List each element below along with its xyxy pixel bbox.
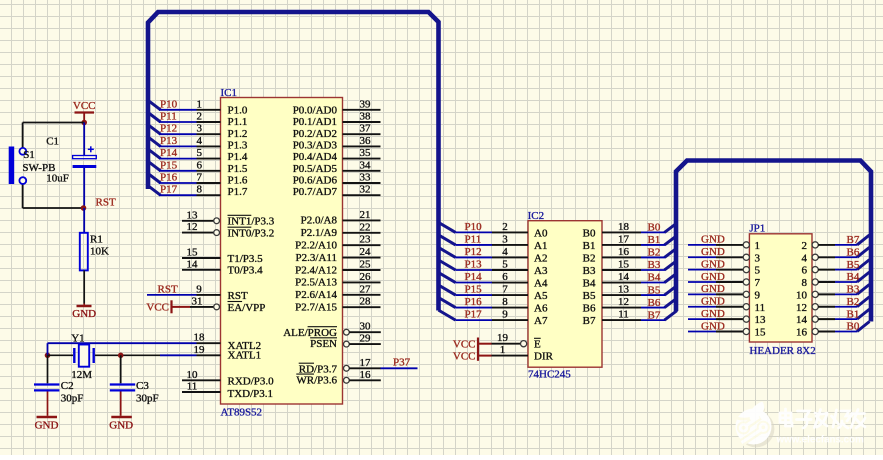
svg-text:VCC: VCC: [453, 339, 476, 351]
svg-text:P14: P14: [465, 271, 483, 283]
svg-text:B5: B5: [648, 284, 661, 296]
svg-text:B3: B3: [583, 265, 596, 277]
svg-text:24: 24: [360, 246, 372, 258]
svg-text:P0.1/AD1: P0.1/AD1: [293, 116, 337, 128]
svg-text:P17: P17: [465, 309, 483, 321]
svg-text:JP1: JP1: [749, 223, 765, 235]
svg-text:RST: RST: [228, 290, 248, 302]
svg-text:9: 9: [755, 289, 761, 301]
svg-text:P17: P17: [160, 184, 178, 196]
svg-text:25: 25: [360, 259, 372, 271]
svg-text:P37: P37: [393, 357, 411, 369]
svg-text:12: 12: [187, 221, 198, 233]
svg-text:P0.2/AD2: P0.2/AD2: [293, 128, 337, 140]
svg-text:A3: A3: [534, 265, 548, 277]
svg-text:A5: A5: [534, 290, 548, 302]
svg-text:GND: GND: [701, 258, 725, 270]
svg-text:12: 12: [796, 302, 807, 314]
svg-text:8: 8: [197, 184, 203, 196]
svg-text:6: 6: [802, 265, 808, 277]
svg-text:B5: B5: [847, 259, 860, 271]
svg-text:19: 19: [497, 332, 509, 344]
svg-text:2: 2: [802, 240, 808, 252]
svg-text:16: 16: [796, 326, 808, 338]
svg-text:P2.0/A8: P2.0/A8: [301, 215, 338, 227]
svg-text:DIR: DIR: [534, 351, 554, 363]
svg-text:P2.4/A12: P2.4/A12: [295, 264, 337, 276]
svg-text:16: 16: [618, 246, 630, 258]
svg-text:GND: GND: [701, 246, 725, 258]
svg-text:P12: P12: [465, 246, 482, 258]
svg-text:37: 37: [360, 123, 372, 135]
svg-text:P11: P11: [465, 233, 482, 245]
svg-text:3: 3: [502, 233, 508, 245]
svg-text:B7: B7: [648, 309, 661, 321]
svg-text:P2.7/A15: P2.7/A15: [295, 302, 337, 314]
svg-text:30pF: 30pF: [61, 393, 84, 405]
svg-text:HEADER 8X2: HEADER 8X2: [749, 345, 815, 357]
svg-text:4: 4: [197, 135, 203, 147]
svg-text:23: 23: [360, 234, 372, 246]
svg-text:RST: RST: [158, 283, 178, 295]
svg-text:WR/P3.6: WR/P3.6: [296, 374, 337, 386]
svg-text:C3: C3: [136, 380, 149, 392]
svg-text:A1: A1: [534, 240, 547, 252]
svg-text:GND: GND: [701, 234, 725, 246]
svg-text:B2: B2: [583, 252, 596, 264]
svg-text:7: 7: [755, 277, 761, 289]
svg-text:35: 35: [360, 147, 372, 159]
svg-text:Y1: Y1: [71, 333, 84, 345]
svg-text:GND: GND: [35, 419, 59, 431]
svg-text:B2: B2: [648, 247, 661, 259]
svg-text:P0.0/AD0: P0.0/AD0: [293, 104, 338, 116]
svg-text:P2.3/A11: P2.3/A11: [296, 252, 337, 264]
svg-text:IC2: IC2: [528, 210, 545, 222]
svg-text:P10: P10: [465, 221, 483, 233]
svg-text:12M: 12M: [71, 369, 92, 381]
svg-text:XATL1: XATL1: [228, 350, 262, 362]
svg-text:P10: P10: [160, 98, 178, 110]
svg-text:P1.1: P1.1: [228, 116, 248, 128]
svg-text:17: 17: [618, 233, 630, 245]
svg-text:39: 39: [360, 98, 372, 110]
svg-text:B1: B1: [847, 308, 860, 320]
svg-text:B7: B7: [847, 234, 860, 246]
svg-text:A6: A6: [534, 303, 548, 315]
svg-text:P0.7/AD7: P0.7/AD7: [293, 186, 338, 198]
svg-text:A4: A4: [534, 278, 548, 290]
svg-text:16: 16: [360, 369, 372, 381]
svg-text:7: 7: [197, 172, 203, 184]
svg-text:36: 36: [360, 135, 372, 147]
svg-text:74HC245: 74HC245: [528, 368, 571, 380]
svg-text:B0: B0: [847, 321, 860, 333]
svg-text:13: 13: [755, 314, 767, 326]
svg-text:C2: C2: [61, 380, 74, 392]
svg-text:P0.5/AD5: P0.5/AD5: [293, 163, 338, 175]
svg-text:11: 11: [187, 381, 198, 393]
svg-text:29: 29: [360, 333, 372, 345]
svg-text:6: 6: [197, 159, 203, 171]
svg-text:VCC: VCC: [453, 351, 476, 363]
svg-text:14: 14: [187, 258, 199, 270]
svg-text:GND: GND: [701, 296, 725, 308]
svg-text:34: 34: [360, 159, 372, 171]
svg-text:INT1/P3.3: INT1/P3.3: [228, 216, 275, 228]
svg-text:3: 3: [197, 123, 203, 135]
svg-text:B3: B3: [847, 284, 860, 296]
svg-text:B6: B6: [847, 246, 860, 258]
svg-text:GND: GND: [701, 283, 725, 295]
svg-text:1: 1: [500, 344, 506, 356]
svg-text:17: 17: [360, 357, 372, 369]
svg-text:GND: GND: [701, 320, 725, 332]
svg-text:GND: GND: [72, 308, 96, 320]
svg-text:27: 27: [360, 283, 372, 295]
svg-text:A7: A7: [534, 315, 548, 327]
svg-text:B3: B3: [648, 259, 661, 271]
svg-text:P0.6/AD6: P0.6/AD6: [293, 174, 338, 186]
svg-text:B0: B0: [583, 227, 596, 239]
svg-text:1: 1: [755, 240, 761, 252]
svg-text:P0.3/AD3: P0.3/AD3: [293, 139, 338, 151]
svg-text:AT89S52: AT89S52: [221, 407, 263, 419]
svg-text:15: 15: [755, 326, 767, 338]
svg-text:32: 32: [360, 184, 371, 196]
svg-text:P1.6: P1.6: [228, 174, 248, 186]
svg-text:VCC: VCC: [146, 302, 169, 314]
svg-text:13: 13: [618, 284, 630, 296]
svg-text:B5: B5: [583, 290, 596, 302]
svg-text:8: 8: [802, 277, 808, 289]
svg-text:P1.3: P1.3: [228, 139, 248, 151]
svg-text:B7: B7: [583, 315, 596, 327]
svg-text:INT0/P3.2: INT0/P3.2: [228, 228, 275, 240]
svg-text:30: 30: [360, 321, 372, 333]
svg-text:26: 26: [360, 271, 372, 283]
svg-text:11: 11: [755, 302, 766, 314]
svg-text:T1/P3.5: T1/P3.5: [228, 253, 264, 265]
svg-text:10K: 10K: [90, 246, 109, 258]
svg-text:33: 33: [360, 172, 372, 184]
svg-text:P15: P15: [465, 284, 483, 296]
svg-text:C1: C1: [46, 135, 59, 147]
svg-text:R1: R1: [90, 233, 103, 245]
svg-text:B6: B6: [648, 297, 661, 309]
svg-text:21: 21: [360, 209, 371, 221]
svg-text:11: 11: [618, 309, 629, 321]
svg-text:P15: P15: [160, 159, 178, 171]
svg-text:18: 18: [618, 221, 630, 233]
svg-text:P2.6/A14: P2.6/A14: [295, 289, 337, 301]
svg-text:P1.0: P1.0: [228, 104, 248, 116]
svg-text:12: 12: [618, 296, 629, 308]
svg-text:P2.1/A9: P2.1/A9: [301, 227, 338, 239]
svg-text:5: 5: [502, 258, 508, 270]
svg-text:22: 22: [360, 221, 371, 233]
svg-text:31: 31: [192, 295, 203, 307]
svg-text:18: 18: [194, 332, 206, 344]
svg-text:P12: P12: [160, 123, 177, 135]
svg-text:6: 6: [502, 271, 508, 283]
svg-text:30pF: 30pF: [136, 393, 159, 405]
svg-text:P16: P16: [160, 172, 178, 184]
svg-text:15: 15: [618, 258, 630, 270]
svg-text:P1.4: P1.4: [228, 151, 248, 163]
svg-text:13: 13: [187, 209, 199, 221]
svg-text:8: 8: [502, 296, 508, 308]
svg-text:P13: P13: [465, 258, 483, 270]
svg-text:10uF: 10uF: [46, 172, 69, 184]
svg-text:P1.7: P1.7: [228, 186, 248, 198]
svg-text:A0: A0: [534, 227, 548, 239]
svg-text:9: 9: [502, 309, 508, 321]
svg-text:3: 3: [755, 252, 761, 264]
svg-text:4: 4: [802, 252, 808, 264]
svg-text:EA/VPP: EA/VPP: [228, 302, 266, 314]
svg-text:P0.4/AD4: P0.4/AD4: [293, 151, 338, 163]
svg-text:GND: GND: [701, 271, 725, 283]
svg-text:B4: B4: [583, 278, 596, 290]
svg-text:7: 7: [502, 284, 508, 296]
svg-text:38: 38: [360, 111, 372, 123]
svg-text:P16: P16: [465, 296, 483, 308]
svg-text:A2: A2: [534, 252, 547, 264]
svg-text:B6: B6: [583, 303, 596, 315]
svg-text:15: 15: [187, 247, 199, 259]
svg-text:TXD/P3.1: TXD/P3.1: [228, 388, 274, 400]
svg-text:B1: B1: [583, 240, 596, 252]
svg-text:5: 5: [755, 265, 761, 277]
svg-text:P1.2: P1.2: [228, 128, 248, 140]
svg-text:GND: GND: [109, 419, 133, 431]
svg-text:GND: GND: [701, 308, 725, 320]
svg-text:P13: P13: [160, 135, 178, 147]
svg-text:9: 9: [196, 283, 202, 295]
svg-text:S1: S1: [23, 149, 35, 161]
svg-text:2: 2: [502, 221, 508, 233]
svg-text:10: 10: [796, 289, 808, 301]
svg-text:RST: RST: [96, 196, 116, 208]
svg-text:P2.2/A10: P2.2/A10: [295, 240, 337, 252]
svg-text:PSEN: PSEN: [310, 338, 337, 350]
svg-text:RXD/P3.0: RXD/P3.0: [228, 376, 275, 388]
svg-text:www.elecfans.com: www.elecfans.com: [776, 434, 865, 445]
svg-text:4: 4: [502, 246, 508, 258]
svg-text:19: 19: [194, 344, 206, 356]
svg-text:T0/P3.4: T0/P3.4: [228, 265, 264, 277]
svg-text:B2: B2: [847, 296, 860, 308]
svg-text:B1: B1: [648, 234, 661, 246]
svg-text:P14: P14: [160, 147, 178, 159]
svg-text:2: 2: [197, 111, 203, 123]
svg-text:1: 1: [197, 98, 203, 110]
svg-text:5: 5: [197, 147, 203, 159]
svg-text:P1.5: P1.5: [228, 163, 248, 175]
svg-text:14: 14: [796, 314, 808, 326]
svg-text:IC1: IC1: [221, 87, 238, 99]
svg-text:P2.5/A13: P2.5/A13: [295, 277, 337, 289]
svg-text:B0: B0: [648, 222, 661, 234]
svg-text:E: E: [534, 339, 541, 351]
svg-text:10: 10: [187, 369, 199, 381]
svg-text:14: 14: [618, 271, 630, 283]
svg-text:P11: P11: [160, 111, 177, 123]
svg-text:VCC: VCC: [73, 100, 96, 112]
svg-text:28: 28: [360, 296, 372, 308]
svg-text:B4: B4: [648, 272, 661, 284]
svg-text:B4: B4: [847, 271, 860, 283]
